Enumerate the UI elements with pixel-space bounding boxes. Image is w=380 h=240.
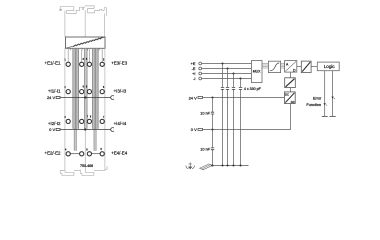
- module bottom foot right: [80, 170, 94, 176]
- shield bus: [211, 165, 249, 167]
- electronics box hatch strokes: [73, 37, 102, 47]
- LED symbol on line 2: [331, 97, 333, 99]
- input terminal circle 4: [199, 77, 202, 80]
- module electronics box with diagonal: [66, 37, 106, 48]
- DC/DC converter box: [284, 92, 295, 104]
- svg-text:8: 8: [101, 148, 103, 151]
- junction dot input 4: [240, 78, 242, 80]
- LED line 2 from Logic: [332, 71, 334, 117]
- svg-text:Error: Error: [313, 97, 322, 101]
- module top contour center latch slot: [82, 7, 83, 10]
- svg-text:+E: +E: [191, 62, 196, 66]
- input terminal circle 1: [199, 62, 202, 65]
- svg-text:+I3/-I3: +I3/-I3: [114, 89, 127, 94]
- module bottom ledge right: [94, 169, 105, 171]
- wire input 4 to MUX: [202, 78, 252, 80]
- module vertical guide right upper: [104, 14, 106, 38]
- shield bus junction dot 2: [227, 165, 229, 167]
- LED symbol tick line 2: [334, 97, 335, 100]
- svg-text:+I2/-I2: +I2/-I2: [48, 121, 61, 126]
- LED symbol on line 1: [324, 103, 326, 105]
- svg-text:-E: -E: [192, 67, 196, 71]
- svg-text:8: 8: [86, 148, 88, 151]
- A/D diagonal: [285, 61, 296, 71]
- svg-text:4 x 330 pF: 4 x 330 pF: [244, 87, 262, 91]
- LED symbol tick line 1: [326, 104, 327, 107]
- svg-text:10 nF: 10 nF: [200, 148, 210, 152]
- shield bus junction dot 4: [240, 165, 242, 167]
- terminal numbers row 4: [65, 148, 103, 152]
- female contact row 3 right: [111, 128, 114, 132]
- functional earth symbol: [186, 162, 195, 168]
- 0V feed-through wire row 3: [60, 129, 111, 131]
- wire A/D to isolator: [297, 66, 302, 68]
- svg-text:750-468: 750-468: [80, 164, 93, 168]
- svg-text:+I: +I: [192, 72, 195, 76]
- svg-text:0 V: 0 V: [191, 127, 197, 132]
- svg-text:2: 2: [64, 86, 66, 89]
- junction dot 0V rail: [212, 129, 214, 131]
- row 4 wire right pair: [92, 153, 101, 155]
- filter cap 3: [232, 87, 235, 89]
- svg-text:3: 3: [64, 116, 66, 119]
- isolator bottom diagonal: [286, 79, 295, 87]
- 24V feed-through wire row 2: [60, 97, 111, 99]
- terminal circles row 4: [66, 152, 104, 156]
- svg-text:1: 1: [64, 58, 66, 61]
- amplifier curve: [270, 63, 280, 71]
- terminal numbers row 2: [64, 86, 105, 89]
- wire isolator to Logic: [311, 66, 317, 68]
- bus amplifier to A/D: [281, 64, 285, 69]
- capacitor 10nF upper: [211, 112, 214, 114]
- LED line 1 from Logic: [324, 71, 326, 117]
- shield connection clamp symbol: [200, 164, 213, 170]
- filter cap 1: [221, 87, 224, 89]
- junction dot input 3: [233, 73, 235, 75]
- svg-text:4: 4: [65, 149, 67, 152]
- svg-text:0 V: 0 V: [49, 127, 55, 132]
- junction dot input 1: [222, 63, 224, 65]
- terminal numbers row 1: [64, 58, 105, 61]
- input terminal circle 3: [199, 72, 202, 75]
- bus MUX to amplifier: [262, 64, 268, 69]
- isolator box bottom: [285, 78, 296, 88]
- svg-text:10 nF: 10 nF: [200, 112, 210, 116]
- svg-text:+I4/-I4: +I4/-I4: [114, 121, 127, 126]
- terminal circles row 3: [66, 119, 104, 123]
- module vertical guide center upper: [84, 10, 86, 37]
- svg-text:MUX: MUX: [253, 69, 261, 73]
- row 4 wire left pair: [70, 153, 79, 155]
- pin ticks under electronics box: [71, 48, 99, 50]
- filter cap line 3: [233, 74, 235, 166]
- shield bus junction dot 0: [212, 165, 214, 167]
- terminal cage stub right lower: [94, 129, 97, 151]
- 10nF branch line: [212, 98, 214, 166]
- 0V contact symbol schematic: [198, 128, 203, 130]
- svg-text:5: 5: [86, 58, 88, 61]
- wire input 1 to MUX: [202, 63, 252, 65]
- shield bus junction dot 1: [222, 165, 224, 167]
- capacitor 10nF lower: [211, 148, 214, 150]
- svg-text:6: 6: [86, 86, 88, 89]
- module top contour left claw: [60, 7, 85, 14]
- LED line 1 end bar: [322, 115, 328, 117]
- filter cap 4: [239, 87, 242, 89]
- input terminal circle 2: [199, 67, 202, 70]
- vertical wire A/D to isolator bottom: [290, 72, 292, 78]
- junction dot 24V rail: [212, 97, 214, 99]
- terminal cage stub left lower: [74, 129, 77, 151]
- electronics box diagonal: [66, 37, 106, 48]
- wire isolator bottom to DC/DC: [290, 88, 292, 92]
- junction dot row 3: [84, 128, 86, 130]
- filter cap 2: [226, 87, 229, 89]
- 0V rail to DC/DC: [203, 104, 291, 130]
- module top contour right claw: [85, 6, 106, 16]
- module center guide line lower: [84, 129, 86, 171]
- filter cap line 2: [227, 69, 229, 166]
- terminal circles row 2: [66, 90, 104, 94]
- isolator box top (galvanic isolation): [301, 61, 311, 72]
- svg-text:DC: DC: [285, 93, 289, 97]
- svg-text:7: 7: [87, 116, 89, 119]
- wire input 3 to MUX: [202, 73, 252, 75]
- svg-text:+E2/-E2: +E2/-E2: [45, 150, 62, 155]
- MUX box U1: [251, 61, 262, 83]
- terminal cage bar left: [72, 49, 79, 129]
- svg-text:+E1/-E1: +E1/-E1: [45, 61, 62, 66]
- female contact row 2 right: [111, 96, 114, 100]
- wire input 2 to MUX: [202, 68, 252, 70]
- module bottom ledge center: [74, 169, 80, 171]
- Logic box: [317, 62, 339, 71]
- svg-text:-I: -I: [193, 77, 195, 81]
- junction dot input 2: [227, 68, 229, 70]
- svg-text:24 V: 24 V: [47, 95, 56, 100]
- svg-text:+E3/-E3: +E3/-E3: [111, 61, 128, 66]
- 0V male contact symbol: [56, 128, 60, 130]
- module bottom right hook: [105, 166, 107, 170]
- amplifier box with response curve: [268, 61, 280, 72]
- module top latch tip dark tick: [60, 9, 62, 10]
- svg-text:24 V: 24 V: [189, 95, 198, 100]
- isolator diagonal: [302, 62, 310, 72]
- junction dot row 2: [84, 96, 86, 98]
- filter cap line 4: [240, 79, 242, 166]
- svg-text:+E4/-E4: +E4/-E4: [111, 150, 128, 155]
- 24V male contact symbol: [56, 96, 60, 98]
- terminal circles row 1: [66, 62, 104, 66]
- module vertical guide left upper: [64, 11, 66, 37]
- svg-text:Logic: Logic: [324, 64, 336, 69]
- module vertical guide right lower: [104, 48, 106, 170]
- DC/DC diagonal: [285, 93, 294, 103]
- svg-text:Function: Function: [306, 103, 321, 107]
- svg-text:8: 8: [90, 116, 92, 119]
- LED line 2 end bar: [330, 115, 336, 117]
- terminal numbers row 3: [64, 116, 105, 119]
- shield bus junction dot 3: [233, 165, 235, 167]
- filter cap line 1: [222, 64, 224, 166]
- svg-text:DC: DC: [291, 100, 295, 104]
- 24V rail to DC/DC: [203, 97, 285, 99]
- wires from electronics box to row 1 terminals: [68, 48, 102, 62]
- module center contact band: [84, 49, 87, 129]
- svg-text:+I1/-I1: +I1/-I1: [48, 89, 61, 94]
- module bottom foot left: [60, 170, 74, 175]
- terminal cage bar right: [92, 49, 99, 129]
- module vertical guide left lower: [64, 48, 66, 170]
- A/D converter box: [285, 61, 297, 73]
- 24V contact symbol schematic: [198, 96, 203, 98]
